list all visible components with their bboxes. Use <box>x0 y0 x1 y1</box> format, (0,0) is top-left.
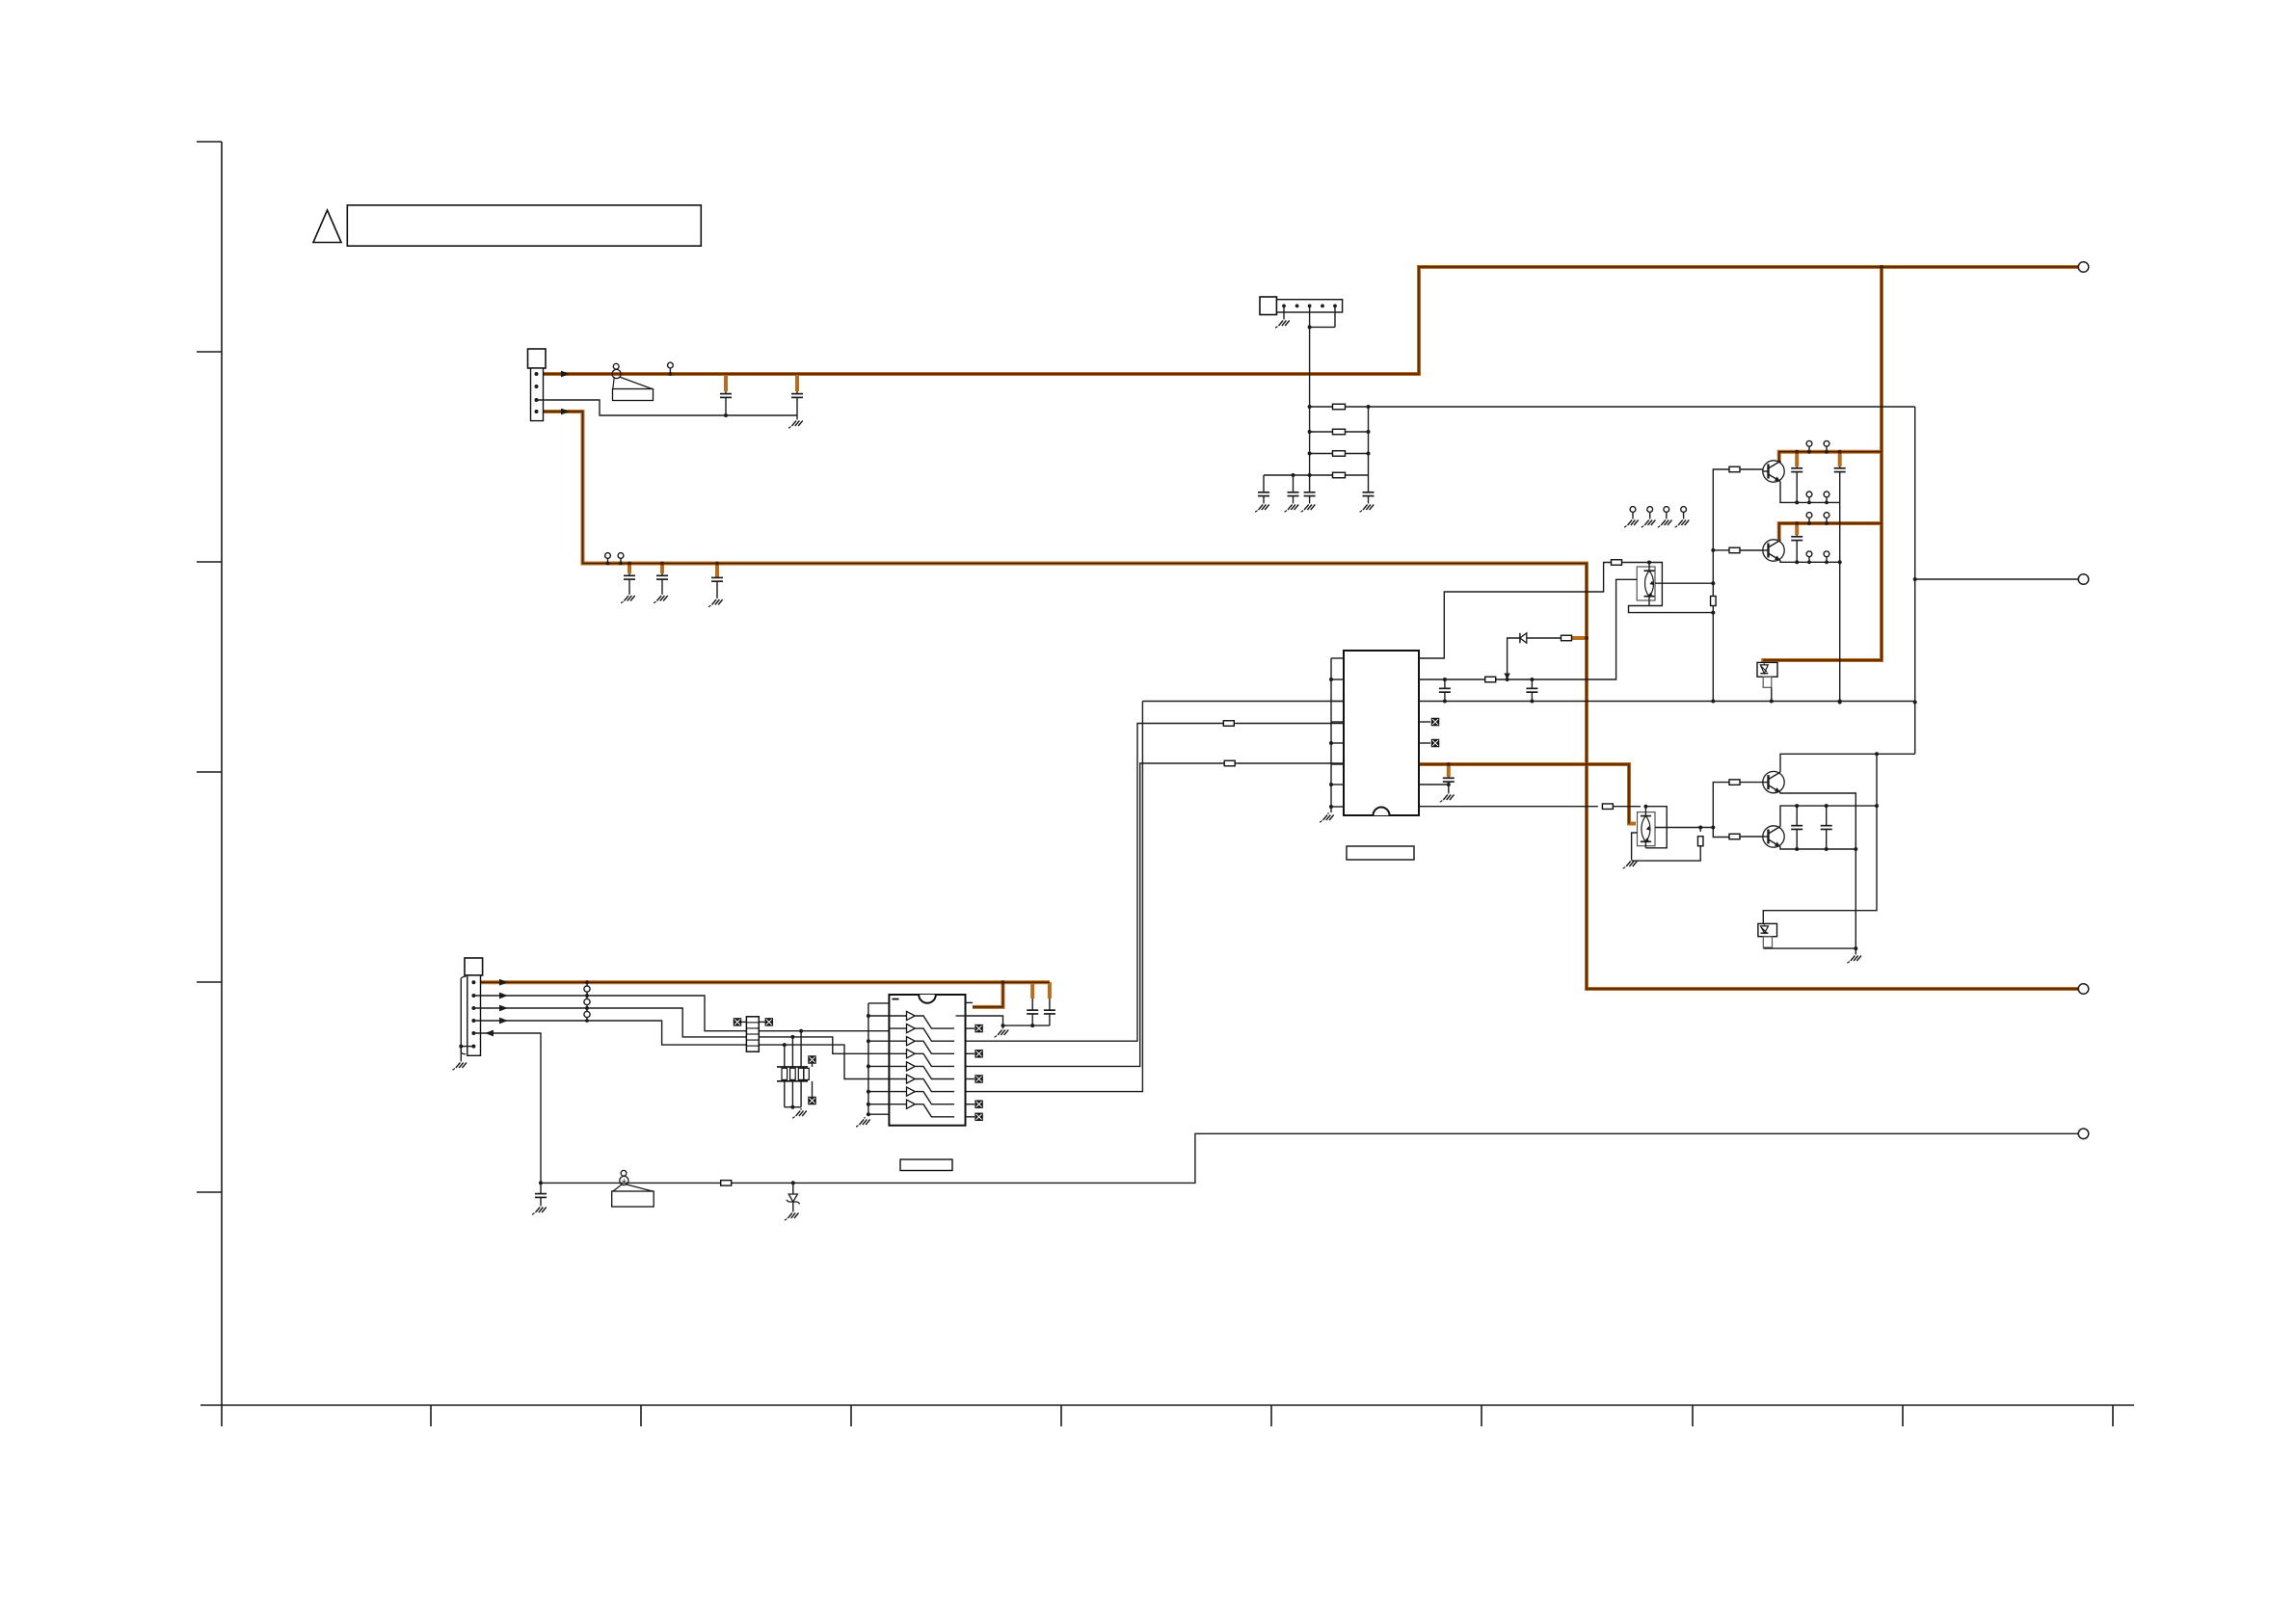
svg-text:+: + <box>622 1176 627 1185</box>
